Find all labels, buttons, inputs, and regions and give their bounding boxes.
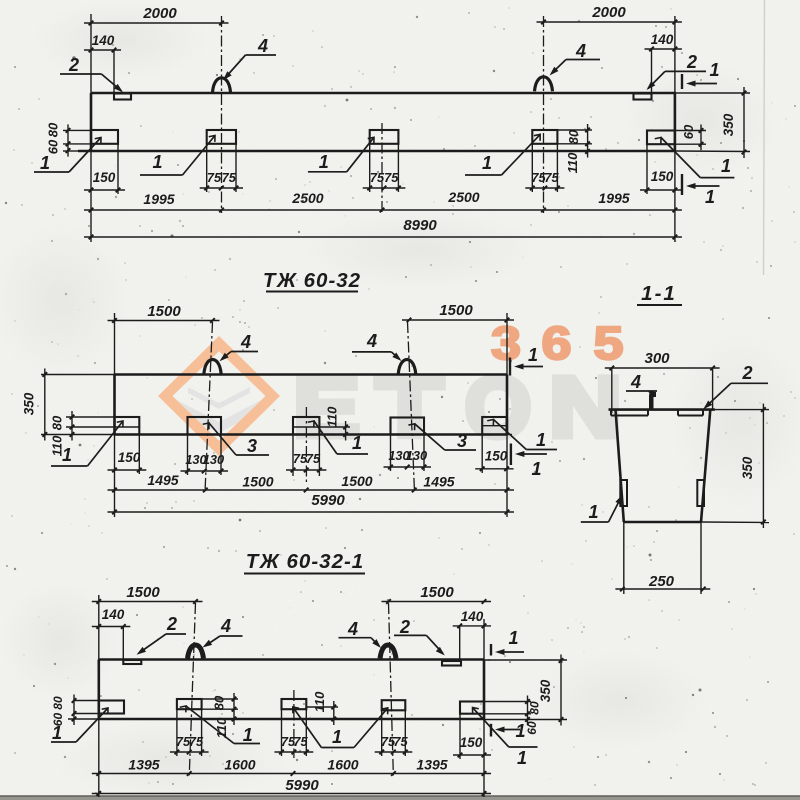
centerline bot right <box>389 603 394 777</box>
dim 80-60 left <box>66 124 71 156</box>
beam right end <box>674 93 677 151</box>
leader 2 left <box>60 55 125 95</box>
leader 4 right (mid) <box>352 331 403 363</box>
beam bottom edge <box>78 150 676 153</box>
svg-text:8990: 8990 <box>403 217 437 234</box>
svg-text:75: 75 <box>306 451 321 466</box>
svg-text:300: 300 <box>644 350 670 367</box>
centerline loop/hole right <box>543 16 545 213</box>
hole B3 <box>282 699 307 709</box>
section cut 1 bottom right (bot) <box>491 724 527 768</box>
dim 140 right <box>645 32 682 51</box>
top plate right <box>678 415 703 417</box>
leader 3 M2 <box>203 420 269 456</box>
svg-text:1: 1 <box>517 748 527 768</box>
centerline mid center-hole <box>305 407 307 482</box>
bottom scan edge strip <box>0 796 800 800</box>
svg-text:N: N <box>550 360 622 454</box>
svg-text:75: 75 <box>207 170 222 185</box>
svg-text:4: 4 <box>240 332 251 352</box>
dim 80-110 hole B2 <box>232 693 237 725</box>
centerline hole middle <box>381 123 383 213</box>
ext 140 right (bot) <box>459 626 461 661</box>
ext lines 300 <box>611 368 613 413</box>
leader 4 left <box>221 36 276 82</box>
svg-text:2: 2 <box>68 55 79 75</box>
dim 140 right (bot) <box>453 609 491 628</box>
leader 2 section <box>701 363 768 411</box>
svg-text:350: 350 <box>740 456 755 479</box>
section left wall <box>616 410 624 522</box>
embedded plate notch left (item 2) <box>114 94 131 100</box>
svg-text:75: 75 <box>384 170 399 185</box>
ext lines left hole1 <box>63 129 91 131</box>
svg-text:1500: 1500 <box>147 303 181 320</box>
svg-text:140: 140 <box>651 32 674 47</box>
dim 130+130 M4 <box>384 465 432 470</box>
hole B1 left end <box>99 701 124 714</box>
svg-text:140: 140 <box>92 33 115 48</box>
hole M3 inner line + ext <box>293 426 350 428</box>
svg-text:1: 1 <box>705 187 715 207</box>
svg-text:1: 1 <box>531 459 541 479</box>
leader 1 B1 <box>51 705 111 743</box>
dim 150 right <box>640 169 682 192</box>
svg-text:150: 150 <box>651 169 674 184</box>
svg-text:75: 75 <box>293 734 308 749</box>
beam right end <box>506 375 509 435</box>
dim 5990 (mid) <box>108 492 515 514</box>
section cut 1 top right (mid) <box>510 345 543 376</box>
svg-text:1500: 1500 <box>420 584 454 601</box>
ext lines 250 <box>623 522 625 594</box>
svg-text:1: 1 <box>243 725 253 745</box>
section top edge <box>609 408 715 411</box>
svg-text:1495: 1495 <box>423 474 454 490</box>
svg-text:1: 1 <box>515 721 525 741</box>
svg-text:5990: 5990 <box>285 777 319 794</box>
svg-text:130: 130 <box>406 448 427 463</box>
beam bottom edge <box>99 718 484 721</box>
dim 110 middle hole (mid) <box>343 421 348 441</box>
svg-text:130: 130 <box>203 452 224 467</box>
svg-text:2: 2 <box>686 52 697 72</box>
svg-text:1: 1 <box>709 60 719 80</box>
embedded plate notch right (item 2) <box>634 94 652 100</box>
svg-text:140: 140 <box>461 609 484 624</box>
dim 140 left (bot) <box>92 607 131 629</box>
svg-text:ТЖ 60-32-1: ТЖ 60-32-1 <box>246 550 364 573</box>
hole M5 inner line <box>482 425 506 427</box>
svg-text:1500: 1500 <box>126 584 160 601</box>
dim 350 right (bot) <box>559 655 564 726</box>
beam left end <box>98 660 101 720</box>
embedded plate notch right (item 2) <box>442 661 461 666</box>
embedded plate notch left (item 2) <box>123 660 141 664</box>
leader 1 B2 <box>180 703 260 745</box>
dim 300 section <box>605 350 720 370</box>
lifting loop 4 left <box>213 78 231 93</box>
dim 1500 left (bot) <box>92 584 203 604</box>
extension lines ends <box>98 595 100 660</box>
hole B5 ext lines <box>484 701 531 703</box>
leader 1 section <box>581 493 625 522</box>
loop bar cross-section (item 4) <box>649 392 656 410</box>
svg-text:80: 80 <box>566 129 581 144</box>
section cut 1 bottom right <box>682 174 720 207</box>
dim row 1495-1500 (mid) <box>108 488 515 493</box>
hole 4 <box>532 130 557 144</box>
svg-text:4: 4 <box>575 41 586 61</box>
title TJ 60-32-1 <box>244 550 365 574</box>
leader 4 left (mid) <box>218 332 258 363</box>
svg-text:250: 250 <box>648 573 675 590</box>
hole M4 <box>391 418 425 435</box>
svg-text:2000: 2000 <box>142 5 177 22</box>
extension lines beam ends <box>90 14 92 93</box>
svg-text:80: 80 <box>50 415 65 430</box>
dim row 1995-2500 <box>84 208 682 213</box>
title 1-1 <box>637 282 682 305</box>
dim 80-60 right (bot) <box>525 696 530 726</box>
leader 3 M4 <box>408 421 476 451</box>
leader 1 hole1 <box>34 135 104 173</box>
dim 75+75 B4 <box>375 750 413 755</box>
svg-text:1: 1 <box>152 152 162 172</box>
svg-text:1: 1 <box>352 433 362 453</box>
lifting loop 4 left (mid) <box>204 360 221 375</box>
dim 350 section <box>761 404 766 528</box>
svg-text:2: 2 <box>741 363 752 383</box>
dim 130+130 M2 <box>181 469 229 474</box>
svg-text:80: 80 <box>51 696 65 710</box>
centerline mid left <box>205 322 213 492</box>
beam top edge <box>91 92 676 95</box>
dim 75+75 hole4 <box>525 186 564 191</box>
hole B4 <box>382 700 406 710</box>
svg-text:5990: 5990 <box>311 492 345 509</box>
beam top edge <box>115 373 508 376</box>
svg-text:110: 110 <box>565 152 580 173</box>
hole M3 middle <box>293 417 319 435</box>
svg-text:1: 1 <box>482 153 492 173</box>
svg-text:80: 80 <box>212 695 227 710</box>
dim 150 left (mid) <box>108 450 147 472</box>
extension lines ends <box>114 313 116 375</box>
svg-text:110: 110 <box>312 691 327 712</box>
svg-text:1500: 1500 <box>242 474 273 490</box>
svg-text:ТЖ 60-32: ТЖ 60-32 <box>263 269 361 292</box>
section bottom edge <box>624 521 701 524</box>
hole M2 <box>188 417 222 435</box>
leader 1 M5 <box>487 417 557 450</box>
svg-text:2: 2 <box>399 617 410 637</box>
section right wall <box>701 410 710 522</box>
dim row 1395-1600 (bot) <box>92 771 491 776</box>
leader 4 right (bot) <box>339 619 384 650</box>
leader 4 right <box>547 41 600 78</box>
ext lines 60 right <box>675 130 706 132</box>
section cut 1 bottom right (mid) <box>511 444 547 480</box>
dim 350 right <box>742 87 747 158</box>
svg-text:75: 75 <box>189 734 204 749</box>
svg-text:1: 1 <box>52 723 62 743</box>
hole 1 (left end) <box>91 130 118 144</box>
svg-text:75: 75 <box>222 170 237 185</box>
svg-text:350: 350 <box>22 392 37 415</box>
svg-text:80: 80 <box>46 122 61 137</box>
svg-text:75: 75 <box>393 734 408 749</box>
dim 350 left (mid) <box>43 369 48 441</box>
dim 2000 right top <box>537 4 682 24</box>
ext line B3 dim <box>306 706 338 708</box>
svg-text:60: 60 <box>46 139 61 154</box>
svg-text:4: 4 <box>630 372 641 392</box>
svg-text:4: 4 <box>347 619 358 639</box>
leader 2 left (bot) <box>135 614 186 657</box>
svg-text:75: 75 <box>370 170 385 185</box>
svg-text:350: 350 <box>538 679 553 702</box>
hole M5 right end <box>482 417 506 435</box>
svg-text:140: 140 <box>102 607 125 622</box>
dim 1500 right (mid) <box>402 302 514 322</box>
svg-text:110: 110 <box>214 717 229 738</box>
svg-text:1: 1 <box>332 727 342 747</box>
dim 75+75 B2 <box>170 750 209 755</box>
leader 4 section <box>626 372 657 401</box>
svg-text:150: 150 <box>93 170 116 185</box>
beam left end <box>90 93 93 151</box>
hole 2 <box>207 130 236 144</box>
svg-text:2: 2 <box>166 614 177 634</box>
svg-text:4: 4 <box>366 331 377 351</box>
svg-text:1995: 1995 <box>143 191 174 207</box>
svg-text:60: 60 <box>681 124 696 139</box>
lifting loop 4 right <box>535 77 553 92</box>
dim 1500 left (mid) <box>108 303 220 323</box>
centerline bot left <box>189 603 195 777</box>
svg-text:60: 60 <box>525 721 539 735</box>
watermark beton365 logo cube <box>158 336 280 456</box>
side plate left (item 1) <box>620 480 627 506</box>
dim 75+75 hole2 <box>200 186 243 191</box>
dim 250 section <box>615 573 710 591</box>
svg-text:1: 1 <box>319 152 329 172</box>
dim 75+75 M3 <box>286 468 326 473</box>
leader 1 B5 <box>469 705 537 747</box>
svg-text:4: 4 <box>257 36 268 56</box>
svg-text:4: 4 <box>220 616 231 636</box>
svg-text:80: 80 <box>528 701 542 715</box>
side plate right (item 1) <box>697 480 704 506</box>
svg-text:350: 350 <box>721 113 736 136</box>
svg-text:3: 3 <box>457 431 467 451</box>
dim 80-110 left (mid) <box>70 411 75 441</box>
svg-text:1: 1 <box>40 153 50 173</box>
svg-text:3: 3 <box>247 436 257 456</box>
section cut 1 top right <box>682 60 720 89</box>
leader 1 hole5 <box>661 138 734 178</box>
dim 110 hole B3 <box>331 701 336 725</box>
leader 1 hole4 <box>465 132 543 175</box>
faint scan crease line <box>764 0 765 275</box>
beam bottom edge <box>115 433 508 436</box>
beam top edge <box>99 658 484 661</box>
svg-text:1995: 1995 <box>598 190 629 206</box>
svg-text:2000: 2000 <box>591 4 626 21</box>
dim 80-110 hole4 <box>585 124 590 158</box>
ext 140 left <box>113 50 115 93</box>
section cut 1 top right (bot) <box>491 628 524 656</box>
svg-text:1: 1 <box>588 502 598 522</box>
svg-text:150: 150 <box>118 450 141 465</box>
svg-text:1-1: 1-1 <box>641 282 677 305</box>
hole side extensions down <box>138 435 140 475</box>
leader 1 B3-B4 double <box>290 704 391 747</box>
svg-text:5: 5 <box>594 317 624 369</box>
dim 150 left <box>84 170 125 192</box>
dim 5990 (bot) <box>92 777 491 796</box>
ext lines hole4 dims <box>557 129 592 131</box>
svg-text:1: 1 <box>721 156 731 176</box>
dim 75+75 B3 <box>275 750 314 755</box>
dim 150 right (bot) <box>453 735 491 757</box>
leader 1 hole3 <box>308 135 377 172</box>
svg-text:2500: 2500 <box>291 190 323 206</box>
leader 1 M1 <box>51 418 126 466</box>
lifting loop 4 right (mid) <box>398 360 416 375</box>
svg-text:1: 1 <box>528 345 538 365</box>
leader 2 right (bot) <box>394 617 447 658</box>
svg-text:1: 1 <box>536 430 546 450</box>
hole B2 <box>177 699 202 709</box>
svg-text:1: 1 <box>62 445 72 465</box>
svg-text:75: 75 <box>544 170 559 185</box>
hole M1 left end <box>115 417 140 435</box>
lifting loop 4 left (bot) <box>188 645 204 659</box>
hole 5 (right end) <box>647 131 675 145</box>
svg-text:1500: 1500 <box>439 302 473 319</box>
svg-text:150: 150 <box>485 449 508 464</box>
hole B1 ext lines <box>74 700 99 702</box>
hook hole5 <box>655 135 664 144</box>
svg-text:150: 150 <box>460 735 483 750</box>
title TJ 60-32 <box>263 269 361 292</box>
leader 1 hole2 <box>140 133 218 175</box>
leader 4 left (bot) <box>201 616 243 650</box>
beam right end <box>483 660 486 720</box>
ext 140 right <box>651 49 653 93</box>
svg-text:1500: 1500 <box>341 473 372 489</box>
dim 75+75 hole3 <box>363 186 406 191</box>
hole M1 inner line + ext <box>66 416 115 418</box>
dim 2000 left top <box>84 5 229 25</box>
top plate left <box>611 415 648 417</box>
svg-text:3: 3 <box>491 317 521 369</box>
hole B5 right end <box>460 702 484 714</box>
lifting loop 4 right (bot) <box>380 645 396 659</box>
leader 1 M3 <box>308 418 368 454</box>
leader 2 right <box>644 52 706 92</box>
svg-text:2500: 2500 <box>447 189 479 205</box>
ext 140 left (bot) <box>122 627 124 660</box>
hole 3 (middle) <box>370 130 399 144</box>
centerline loop/hole left <box>221 16 223 213</box>
ext lines B2 dims <box>202 698 238 700</box>
dim 1500 right (bot) <box>382 584 492 604</box>
centerline bot middle hole <box>293 690 295 758</box>
svg-text:1600: 1600 <box>327 757 358 773</box>
hole side extensions down <box>176 709 178 756</box>
svg-text:1395: 1395 <box>416 757 447 773</box>
svg-text:1395: 1395 <box>128 757 159 773</box>
dim 8990 total <box>84 217 682 239</box>
dim 80-60 left (bot) <box>72 695 77 726</box>
svg-text:110: 110 <box>325 406 340 427</box>
centerline mid right <box>408 322 415 492</box>
svg-text:1: 1 <box>508 628 518 648</box>
svg-text:6: 6 <box>542 317 572 369</box>
beam left end <box>113 375 116 435</box>
dim 140 left <box>84 33 121 52</box>
dim 60 right <box>699 125 704 151</box>
svg-text:1600: 1600 <box>224 757 255 773</box>
svg-text:1495: 1495 <box>147 472 178 488</box>
dim 150 right (mid) <box>475 449 513 472</box>
hole side extension lines down <box>117 144 119 194</box>
